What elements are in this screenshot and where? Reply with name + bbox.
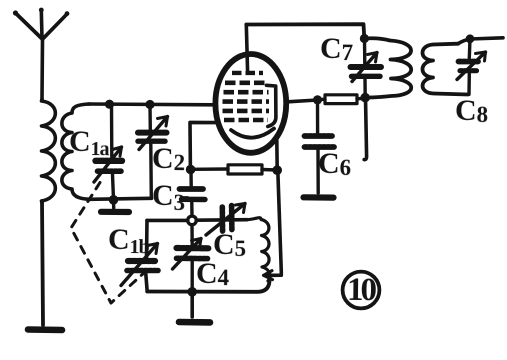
transformer T1 primary coil (364, 38, 411, 97)
wire C2 vertical top (148, 105, 152, 131)
node junction C1a bottom (109, 195, 119, 205)
label C6 (318, 149, 350, 179)
label C1b (108, 225, 149, 257)
capacitor C3 (180, 170, 206, 216)
wire output top (458, 38, 503, 44)
capacitor C5 (206, 204, 245, 236)
tube grid row 2 (225, 81, 268, 86)
tube grid row 3 (224, 90, 269, 95)
label C2 (152, 144, 184, 174)
tube grid row 1 (232, 71, 263, 75)
node junction C6 top (313, 95, 322, 104)
figure number 10 circle (343, 272, 380, 309)
capacitor C8 (457, 39, 486, 95)
tube plate bracket (267, 85, 276, 126)
transformer T1 secondary coil (423, 44, 469, 95)
label C3 (152, 181, 185, 214)
wire plate output right (288, 100, 318, 102)
wire cathode lead down (275, 140, 279, 170)
wire bottom return bus (147, 282, 269, 292)
label C1a (69, 127, 109, 159)
resistor R1 (318, 95, 366, 104)
resistor R2 (191, 165, 277, 174)
antenna (13, 8, 70, 99)
coil L1 antenna primary (42, 99, 56, 203)
capacitor C1b (121, 244, 158, 286)
wire C2 vertical bottom (149, 144, 153, 198)
wire C1b branch vertical (146, 220, 147, 291)
wire secondary bottom bus (89, 198, 152, 199)
wire top grid bus (88, 102, 213, 106)
node ring junction below C3 (188, 216, 197, 225)
vacuum tube V1 envelope (215, 54, 286, 153)
wire C1a vertical bottom (113, 175, 114, 200)
tube grid row 5 (223, 109, 270, 114)
wire C1a vertical top (110, 104, 114, 157)
coil L2 secondary (62, 104, 90, 199)
wire antenna lead down (42, 201, 43, 325)
ground (below C1a) (112, 200, 116, 208)
tube grid row 4 (223, 99, 270, 104)
label C7 (320, 34, 352, 64)
wire screen grid lead (190, 122, 216, 169)
wire regeneration bus (147, 218, 247, 222)
ground (below bottom bus) (190, 292, 194, 317)
capacitor C4 (173, 225, 209, 292)
node junction C4 bottom (187, 287, 197, 297)
node junction grid resistor left (186, 165, 196, 175)
C3 label tick marks (183, 197, 189, 201)
dashed gang linkage C1a-C1b (71, 183, 146, 304)
wire tube top cap lead (246, 25, 247, 73)
wire B+ lead below (364, 98, 366, 160)
label C5 (213, 230, 245, 260)
node junction C7 top (360, 34, 369, 43)
coil L3 tickler (247, 218, 270, 281)
tube cathode arc (231, 129, 274, 138)
capacitor C1a (94, 147, 123, 182)
node junction C1a top (105, 100, 114, 109)
label C4 (196, 259, 228, 289)
capacitor C7 (351, 39, 382, 98)
wire cathode to coil tap arrow (266, 170, 282, 275)
node junction C8 top (466, 34, 475, 43)
capacitor C2 (138, 117, 168, 150)
ground (below C6) (304, 194, 334, 201)
ground (antenna lead) (28, 326, 62, 333)
wire plate top lead to C7 (246, 24, 364, 38)
node junction C7 bottom (360, 93, 370, 103)
node junction cathode (272, 165, 282, 175)
label C8 (455, 96, 487, 126)
capacitor C6 (305, 100, 335, 193)
tube grid row 6 (224, 118, 268, 123)
node junction C2 top (145, 100, 154, 109)
label figure number (347, 274, 374, 307)
